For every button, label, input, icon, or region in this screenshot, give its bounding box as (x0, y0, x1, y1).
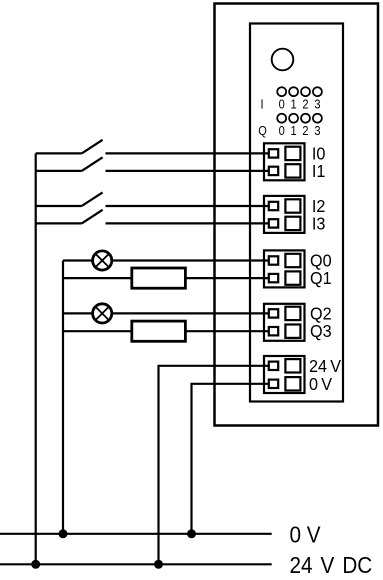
output status LEDs row Q (277, 114, 322, 123)
svg-text:1: 1 (291, 123, 297, 138)
svg-text:Q: Q (258, 123, 267, 138)
wire: switch S1 to terminal I0 (106, 152, 270, 154)
wire: bus to terminal Q1 (63, 277, 269, 279)
svg-text:3: 3 (314, 97, 320, 112)
label Q row: Q 0 1 2 3 (258, 123, 321, 138)
svg-text:Q1: Q1 (310, 268, 332, 288)
wire: switch S3 to terminal I2 (106, 205, 270, 207)
svg-text:I3: I3 (312, 214, 326, 234)
label I row: I 0 1 2 3 (260, 97, 320, 112)
switch S4 contact blade (82, 210, 103, 224)
svg-text:3: 3 (314, 123, 320, 138)
junction: 24 V wire on 24 V DC rail (154, 560, 163, 569)
terminal block I2/I3 (264, 196, 305, 233)
module inner panel (250, 24, 343, 402)
svg-text:0: 0 (279, 97, 285, 112)
wire: bus to switch S1 (36, 152, 82, 154)
lamp E1 (93, 251, 112, 270)
switch S1 contact blade (82, 140, 103, 154)
terminal block I0/I1 (264, 143, 305, 180)
svg-text:Q3: Q3 (310, 321, 332, 341)
wire: lamp E2 to terminal Q2 (112, 312, 269, 314)
terminal block Q0/Q1 (264, 250, 305, 287)
input status LEDs row I (277, 87, 322, 96)
wire: bus to lamp E2 (63, 312, 92, 314)
wire: terminal 0 V to 0 V rail (192, 384, 270, 534)
svg-text:24 V: 24 V (309, 356, 342, 376)
wire: bus to switch S4 (36, 222, 82, 224)
wire: bus to lamp E1 (63, 259, 92, 261)
wire: bus to switch S3 (36, 205, 82, 207)
terminal block 24V/0V (264, 356, 305, 393)
svg-text:2: 2 (302, 123, 308, 138)
switch S2 contact blade (82, 157, 103, 171)
svg-text:1: 1 (291, 97, 297, 112)
0 V rail (0, 533, 272, 535)
resistor R2 (load on Q3) (132, 321, 186, 341)
svg-text:2: 2 (302, 97, 308, 112)
svg-text:0 V: 0 V (290, 521, 321, 547)
switch S3 contact blade (82, 192, 103, 206)
terminal block Q2/Q3 (264, 304, 305, 341)
svg-text:I1: I1 (312, 161, 326, 181)
svg-text:0 V: 0 V (309, 374, 333, 394)
svg-text:I: I (260, 97, 263, 112)
svg-text:24 V DC: 24 V DC (290, 552, 373, 578)
wire: switch S2 to terminal I1 (106, 170, 270, 172)
power LED (top circle) (272, 49, 294, 71)
lamp E2 (93, 304, 112, 323)
wire: 24 V DC bus vertical (switch bus) (35, 153, 37, 564)
resistor R1 (load on Q1) (132, 268, 186, 288)
wire: bus to switch S2 (36, 170, 82, 172)
24 V DC rail (0, 563, 272, 565)
module outline (device rectangle) (215, 4, 379, 426)
wire: 0 V bus vertical (lamp bus) (62, 261, 64, 534)
wire: terminal 24 V to 24 V DC rail (159, 366, 270, 565)
svg-text:0: 0 (279, 123, 285, 138)
junction: lamp bus on 0 V rail (59, 529, 68, 538)
wire: lamp E1 to terminal Q0 (112, 259, 269, 261)
junction: switch bus on 24 V DC rail (31, 560, 40, 569)
wire: switch S4 to terminal I3 (106, 222, 270, 224)
junction: 0 V wire on 0 V rail (187, 529, 196, 538)
wire: bus to terminal Q3 (63, 330, 269, 332)
